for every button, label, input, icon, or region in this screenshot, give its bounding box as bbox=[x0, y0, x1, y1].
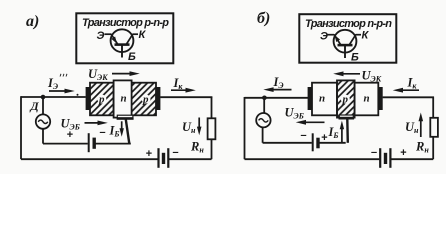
svg-text:IЭ: IЭ bbox=[47, 76, 58, 91]
svg-text:IЭ: IЭ bbox=[273, 75, 284, 90]
svg-text:UЭК: UЭК bbox=[88, 67, 108, 82]
svg-text:n: n bbox=[364, 93, 370, 105]
svg-text:IБ: IБ bbox=[109, 124, 120, 139]
svg-text:p: p bbox=[142, 94, 149, 106]
svg-text:UЭК: UЭК bbox=[362, 69, 382, 84]
svg-text:UЭБ: UЭБ bbox=[285, 106, 304, 121]
svg-text:–: – bbox=[100, 127, 106, 139]
svg-text:Iк: Iк bbox=[407, 76, 418, 91]
svg-text:–: – bbox=[173, 147, 179, 159]
svg-text:Iк: Iк bbox=[173, 76, 184, 91]
svg-text:+: + bbox=[146, 148, 153, 160]
svg-text:б): б) bbox=[257, 10, 270, 27]
svg-text:Э: Э bbox=[320, 31, 328, 43]
svg-text:Uн: Uн bbox=[405, 120, 419, 135]
svg-text:+: + bbox=[321, 132, 328, 144]
svg-text:Д: Д bbox=[30, 99, 40, 113]
svg-text:Uн: Uн bbox=[182, 120, 196, 135]
svg-text:p: p bbox=[98, 94, 105, 106]
svg-text:n: n bbox=[121, 93, 127, 105]
svg-text:IБ: IБ bbox=[328, 125, 339, 140]
svg-text:+: + bbox=[67, 129, 74, 141]
svg-text:n: n bbox=[319, 93, 325, 105]
svg-text:а): а) bbox=[26, 13, 39, 30]
svg-text:Rн: Rн bbox=[415, 140, 429, 155]
svg-text:–: – bbox=[301, 130, 307, 142]
svg-text:+: + bbox=[400, 147, 407, 159]
svg-text:Транзистор p-n-p: Транзистор p-n-p bbox=[82, 17, 169, 29]
svg-text:Б: Б bbox=[351, 52, 359, 64]
svg-text:Транзистор n-p-n: Транзистор n-p-n bbox=[305, 18, 392, 30]
svg-text:Rн: Rн bbox=[190, 140, 204, 155]
svg-text:p: p bbox=[342, 94, 349, 106]
svg-text:Э: Э bbox=[97, 30, 105, 42]
svg-text:–: – bbox=[371, 147, 377, 159]
svg-text:Б: Б bbox=[128, 51, 136, 63]
